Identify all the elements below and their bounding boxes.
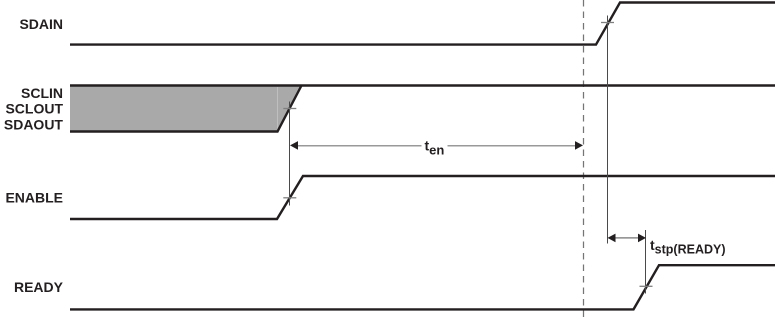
svg-text:ENABLE: ENABLE bbox=[5, 189, 63, 205]
dashed reference line at stop condition bbox=[583, 0, 585, 322]
marker vertical line at ENABLE threshold bbox=[289, 102, 291, 206]
marker vertical line at READY threshold bbox=[645, 230, 647, 294]
arrowhead t_en right bbox=[575, 141, 583, 150]
node SCLIN/SCLOUT/SDAOUT gray bus fill bbox=[70, 86, 302, 132]
svg-text:SCLOUT: SCLOUT bbox=[5, 101, 63, 117]
tick cross on SDAIN edge bbox=[601, 22, 614, 24]
svg-text:SDAIN: SDAIN bbox=[19, 16, 63, 32]
dimension arrow t_en shaft right bbox=[448, 145, 577, 147]
wire ENABLE signal bbox=[70, 176, 775, 219]
svg-text:SCLIN: SCLIN bbox=[21, 85, 63, 101]
svg-text:SDAOUT: SDAOUT bbox=[4, 116, 64, 132]
marker vertical line at SDAIN threshold bbox=[607, 16, 609, 244]
wire SCL bus bottom line and rising edge bbox=[70, 86, 302, 132]
tick cross on ENABLE edge bbox=[283, 197, 296, 199]
arrowhead t_en left bbox=[290, 141, 298, 150]
wire SCL bus top line bbox=[70, 84, 775, 86]
tick cross on READY edge bbox=[640, 285, 653, 287]
wire SDAIN signal bbox=[70, 3, 775, 45]
wire READY signal bbox=[70, 265, 775, 309]
svg-text:READY: READY bbox=[14, 279, 64, 295]
seam edge in bus fill bbox=[277, 87, 279, 131]
arrowhead t_stp right bbox=[638, 234, 646, 243]
dimension arrow t_en shaft left bbox=[297, 145, 422, 147]
dimension arrow t_stp shaft bbox=[613, 237, 640, 239]
arrowhead t_stp left bbox=[608, 234, 616, 243]
tick cross on SCL bus edge bbox=[283, 108, 296, 110]
